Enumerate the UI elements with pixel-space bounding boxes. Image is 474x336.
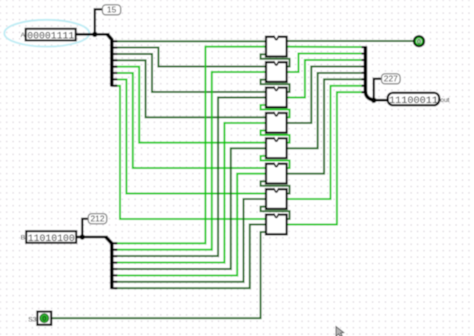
output pin value 11100011 <box>388 93 440 107</box>
svg-text:A: A <box>21 32 26 39</box>
junction node A bus/probe <box>92 32 97 37</box>
junction node B bus/probe <box>80 234 85 239</box>
svg-text:11010100: 11010100 <box>28 233 75 244</box>
wire A bit4 to U4.A <box>116 60 266 117</box>
input pin A value 00001111 <box>26 29 76 42</box>
wire to probe P1 <box>95 9 103 34</box>
full adder U5 (bit 3) <box>266 137 287 158</box>
wire A bit6 to U2.A <box>116 48 266 67</box>
wire B bit0 to U8.B <box>116 225 266 289</box>
wire B bit4 to U4.B <box>116 123 266 263</box>
svg-text:0: 0 <box>42 314 46 323</box>
wire A bit0 to U8.A <box>116 86 266 219</box>
wire A bit1 to U7.A <box>116 79 266 193</box>
wire A bit5 to U3.A <box>116 54 266 92</box>
wire carry U5.Cout to U4.Cin <box>261 131 290 143</box>
wire carry U2.Cout to U1.Cin <box>261 54 290 66</box>
mouse cursor <box>336 327 344 336</box>
wire A bit7 to U1.A <box>116 40 266 42</box>
svg-text:212: 212 <box>91 214 105 224</box>
splitter SP1 (input A) <box>107 34 112 86</box>
full adder U2 (bit 6) <box>266 61 287 82</box>
input pin B value 11010100 <box>26 231 76 244</box>
wire U2.S sum bit6 to out splitter <box>287 54 364 73</box>
wire B bit2 to U6.B <box>116 174 266 276</box>
output pin carry-out (value 0) <box>414 36 424 46</box>
wire U1.Cout to carry output pin <box>287 40 414 42</box>
probe P2 value 212 <box>88 214 107 224</box>
junction node out bus/probe <box>371 98 376 103</box>
svg-text:S3: S3 <box>28 316 36 323</box>
full adder U4 (bit 4) <box>266 112 287 133</box>
svg-text:227: 227 <box>384 74 398 84</box>
probe P3 value 227 <box>382 74 401 84</box>
wire bus to output pin <box>373 99 388 102</box>
input pin S3 (value 0) <box>37 312 51 325</box>
wire carry U6.Cout to U5.Cin <box>261 156 290 168</box>
wire B bit3 to U5.B <box>116 148 266 269</box>
wire U5.S sum bit3 to out splitter <box>287 73 364 148</box>
wire A bit3 to U5.A <box>116 67 266 143</box>
wire to probe P3 <box>374 79 382 100</box>
wire B bit5 to U3.B <box>116 98 266 257</box>
wire carry U4.Cout to U3.Cin <box>261 105 290 117</box>
probe P1 value 15 <box>102 5 120 15</box>
wire S3 to U8.Cin <box>52 232 266 318</box>
full adder U6 (bit 2) <box>266 163 287 184</box>
selection halo around input A <box>4 20 89 47</box>
wire bus from input A <box>76 33 108 36</box>
wire U1.S sum bit7 to out splitter <box>287 46 364 48</box>
wire B bit6 to U2.B <box>116 72 266 250</box>
wire U6.S sum bit2 to out splitter <box>287 79 364 173</box>
wire U8.S sum bit0 to out splitter <box>287 92 364 224</box>
wire B bit1 to U7.B <box>116 199 266 282</box>
wire U3.S sum bit5 to out splitter <box>287 60 364 98</box>
wire U7.S sum bit1 to out splitter <box>287 86 364 199</box>
svg-text:B: B <box>21 235 26 242</box>
wire carry U8.Cout to U7.Cin <box>261 207 290 219</box>
svg-text:15: 15 <box>107 5 117 15</box>
wire to probe P2 <box>82 219 88 237</box>
wire carry U7.Cout to U6.Cin <box>261 181 290 193</box>
wire A bit2 to U6.A <box>116 73 266 168</box>
splitter SP2 (input B) <box>106 237 112 289</box>
svg-text:0: 0 <box>417 39 421 46</box>
full adder U3 (bit 5) <box>266 86 287 107</box>
svg-text:out: out <box>440 97 449 104</box>
wire B bit7 to U1.B <box>116 47 266 244</box>
full adder U7 (bit 1) <box>266 188 287 209</box>
svg-text:00001111: 00001111 <box>27 31 74 42</box>
full adder U8 (bit 0) <box>266 213 287 234</box>
full adder U1 (bit 7) <box>266 36 287 57</box>
wire U4.S sum bit4 to out splitter <box>287 67 364 123</box>
svg-text:11100011: 11100011 <box>389 96 438 107</box>
splitter SP3 (sum output) <box>365 46 373 100</box>
wire bus from input B <box>76 236 106 239</box>
wire carry U3.Cout to U2.Cin <box>261 80 290 92</box>
